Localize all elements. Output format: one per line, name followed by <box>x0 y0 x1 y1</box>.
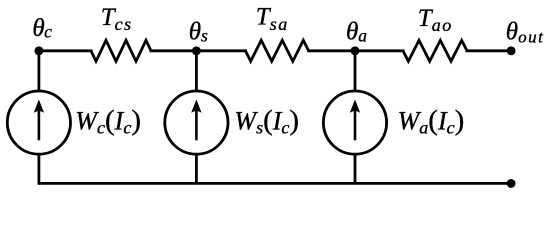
wire T_cs to theta_s <box>150 49 197 52</box>
svg-text:Wa(Ic): Wa(Ic) <box>398 104 465 137</box>
svg-text:θout: θout <box>506 18 545 46</box>
resistor T_cs zigzag <box>91 40 151 61</box>
wire stub theta_s column <box>195 51 198 184</box>
wire theta_c to T_cs <box>39 49 93 52</box>
node theta_out dot <box>507 46 516 55</box>
node theta_a dot <box>351 46 360 55</box>
current source W_s arrow <box>191 100 201 141</box>
current source W_s circle <box>165 91 228 154</box>
svg-text:Tao: Tao <box>418 5 453 35</box>
node theta_s dot <box>192 46 201 55</box>
wire bottom rail <box>39 182 511 185</box>
wire theta_a to T_ao <box>355 49 405 52</box>
svg-text:Tcs: Tcs <box>101 4 133 34</box>
wire T_sa to theta_a <box>307 49 355 52</box>
resistor T_sa zigzag <box>245 40 308 61</box>
wire stub theta_a column <box>354 51 357 184</box>
svg-text:Tsa: Tsa <box>256 4 289 34</box>
svg-text:θa: θa <box>346 18 367 45</box>
current source W_a arrow <box>350 100 360 141</box>
node theta_c dot <box>34 46 43 55</box>
current source W_a circle <box>323 91 386 154</box>
node bottom-right dot <box>507 179 516 188</box>
svg-text:θs: θs <box>189 18 208 45</box>
svg-text:Ws(Ic): Ws(Ic) <box>234 104 299 137</box>
svg-text:θc: θc <box>32 15 52 42</box>
current source W_c circle <box>7 91 70 154</box>
wire left vertical theta_c to bottom rail <box>38 51 41 185</box>
wire theta_s to T_sa <box>196 49 247 52</box>
resistor T_ao zigzag <box>403 40 467 61</box>
wire T_ao to theta_out <box>466 49 512 52</box>
svg-text:Wc(Ic): Wc(Ic) <box>75 104 141 137</box>
current source W_c arrow <box>34 100 44 141</box>
